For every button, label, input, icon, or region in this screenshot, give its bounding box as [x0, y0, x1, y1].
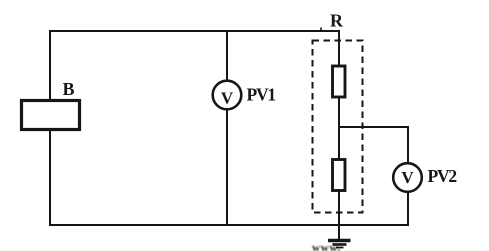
svg-text:B: B [62, 79, 74, 99]
wire top rail [49, 30, 340, 32]
svg-text:V: V [401, 168, 414, 187]
wire PV1 branch upper [226, 31, 228, 82]
wire left rail [49, 30, 51, 226]
svg-text:V: V [221, 89, 234, 108]
battery B [22, 101, 80, 130]
resistor upper half of R [333, 66, 346, 97]
wire PV2 branch upper [407, 126, 409, 164]
svg-text:R: R [330, 11, 344, 31]
dashed box R [313, 41, 363, 213]
voltmeter PV2 [393, 163, 422, 192]
wire PV2 branch lower [407, 191, 409, 226]
resistor lower half of R [333, 160, 346, 191]
wire bottom rail [49, 224, 409, 226]
wire PV1 branch lower [226, 109, 228, 225]
ground [328, 241, 351, 248]
tick on top wire near R [320, 28, 322, 32]
wire mid-node to PV2 [339, 126, 408, 128]
wire R chain middle [338, 95, 340, 160]
svg-text:www.: www. [312, 242, 341, 251]
svg-text:PV1: PV1 [247, 85, 276, 105]
svg-text:PV2: PV2 [428, 166, 457, 186]
wire R chain upper [338, 31, 340, 67]
wire R chain lower / ground stem [338, 189, 340, 240]
voltmeter PV1 [213, 81, 242, 110]
